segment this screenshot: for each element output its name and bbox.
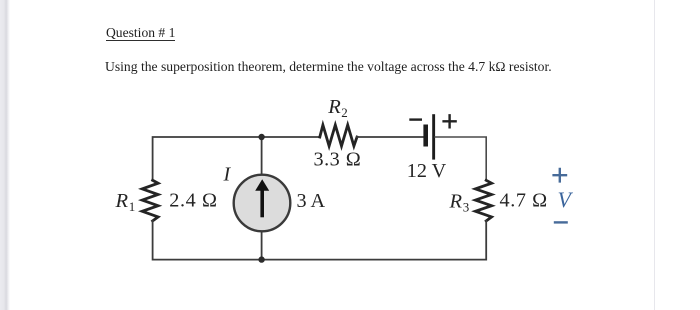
title: Question # 1 (106, 26, 175, 42)
svg-text:3: 3 (463, 200, 470, 215)
svg-text:2.4 Ω: 2.4 Ω (169, 190, 217, 212)
svg-text:R: R (449, 190, 463, 212)
svg-text:I: I (223, 163, 232, 185)
svg-text:R: R (327, 96, 341, 118)
node dot bottom (258, 256, 264, 262)
svg-text:1: 1 (129, 199, 136, 214)
faint page crease line (654, 0, 655, 310)
resistor R1 zigzag (142, 180, 158, 221)
wire: top middle (R2 to battery) (357, 136, 423, 138)
svg-text:V: V (558, 187, 574, 212)
svg-text:R: R (115, 190, 129, 212)
svg-text:3 A: 3 A (297, 190, 326, 212)
resistor R3 zigzag (475, 180, 491, 221)
wire: middle branch lower (261, 230, 263, 260)
wire: bottom U (both lower verticals + bottom wire) (153, 221, 487, 260)
wire: top right (battery to right corner) (435, 137, 486, 181)
node dot top (258, 134, 264, 140)
resistor R2 zigzag (320, 125, 357, 146)
title underline (106, 40, 176, 41)
battery minus sign label (411, 118, 421, 120)
wire: middle branch upper (261, 137, 263, 176)
current source I circle (234, 175, 291, 232)
battery plus sign label (444, 115, 456, 127)
svg-text:2: 2 (341, 105, 348, 120)
battery V1 positive plate (long thin bar) (432, 114, 435, 159)
svg-text:3.3 Ω: 3.3 Ω (314, 149, 362, 171)
current source arrow (260, 190, 264, 216)
svg-text:12 V: 12 V (407, 160, 447, 182)
wire: top-left L (left vertical upper + top wire to R2) (153, 137, 320, 181)
scanned page left edge shading (0, 0, 10, 310)
battery V1 negative plate (short thick bar) (423, 125, 428, 147)
blue polarity plus (554, 169, 566, 181)
svg-text:4.7 Ω: 4.7 Ω (500, 190, 548, 212)
blue polarity minus (555, 221, 567, 223)
problem statement text (105, 60, 552, 76)
